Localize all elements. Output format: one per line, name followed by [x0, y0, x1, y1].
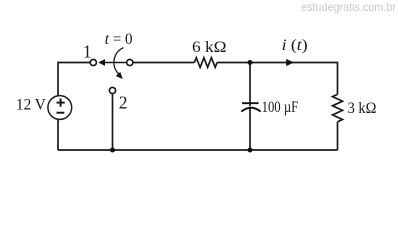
- resistor 3 kOhm: [333, 94, 343, 122]
- wire: resistor R2 bottom lead to bottom-right corner: [337, 122, 339, 150]
- resistor 6 kOhm: [194, 58, 217, 68]
- wire: capacitor top lead: [249, 63, 251, 107]
- svg-text:t = 0: t = 0: [105, 31, 133, 48]
- svg-text:1: 1: [83, 42, 92, 62]
- wire: bottom rail: [58, 149, 338, 151]
- switch terminal node 2: [109, 87, 115, 93]
- svg-text:estudegratis.com.br: estudegratis.com.br: [301, 0, 396, 14]
- switch arm arrowhead: [98, 59, 105, 66]
- switch motion arrowhead: [116, 72, 123, 79]
- junction: capacitor bottom node: [248, 148, 253, 153]
- svg-text:i (t): i (t): [282, 37, 308, 54]
- svg-text:3 kΩ: 3 kΩ: [348, 100, 377, 117]
- capacitor C1 top plate: [242, 102, 259, 104]
- svg-text:12 V: 12 V: [16, 97, 46, 114]
- capacitor C1 curved plate: [241, 108, 260, 112]
- switch terminal node 1: [90, 59, 96, 65]
- voltage source V1: [48, 96, 72, 120]
- switch motion arc: [114, 48, 124, 74]
- switch arm: [101, 62, 127, 64]
- wire: node 2 branch down to bottom rail: [112, 94, 114, 150]
- wire: pivot to resistor R1: [133, 62, 194, 64]
- switch pivot terminal: [127, 59, 133, 65]
- wire: top-left rail from node 1 to left corner down to source +: [58, 63, 90, 96]
- wire: capacitor bottom lead: [249, 108, 251, 150]
- junction: capacitor top node: [248, 60, 253, 65]
- svg-text:2: 2: [119, 93, 128, 113]
- junction: node 2 / bottom rail: [110, 148, 115, 153]
- wire: resistor to top-right corner down to resistor R2: [217, 63, 337, 95]
- current arrow i(t): [286, 59, 294, 66]
- svg-text:6 kΩ: 6 kΩ: [192, 39, 227, 56]
- wire: source - to bottom-left corner: [57, 119, 59, 150]
- svg-text:100 µF: 100 µF: [262, 99, 299, 116]
